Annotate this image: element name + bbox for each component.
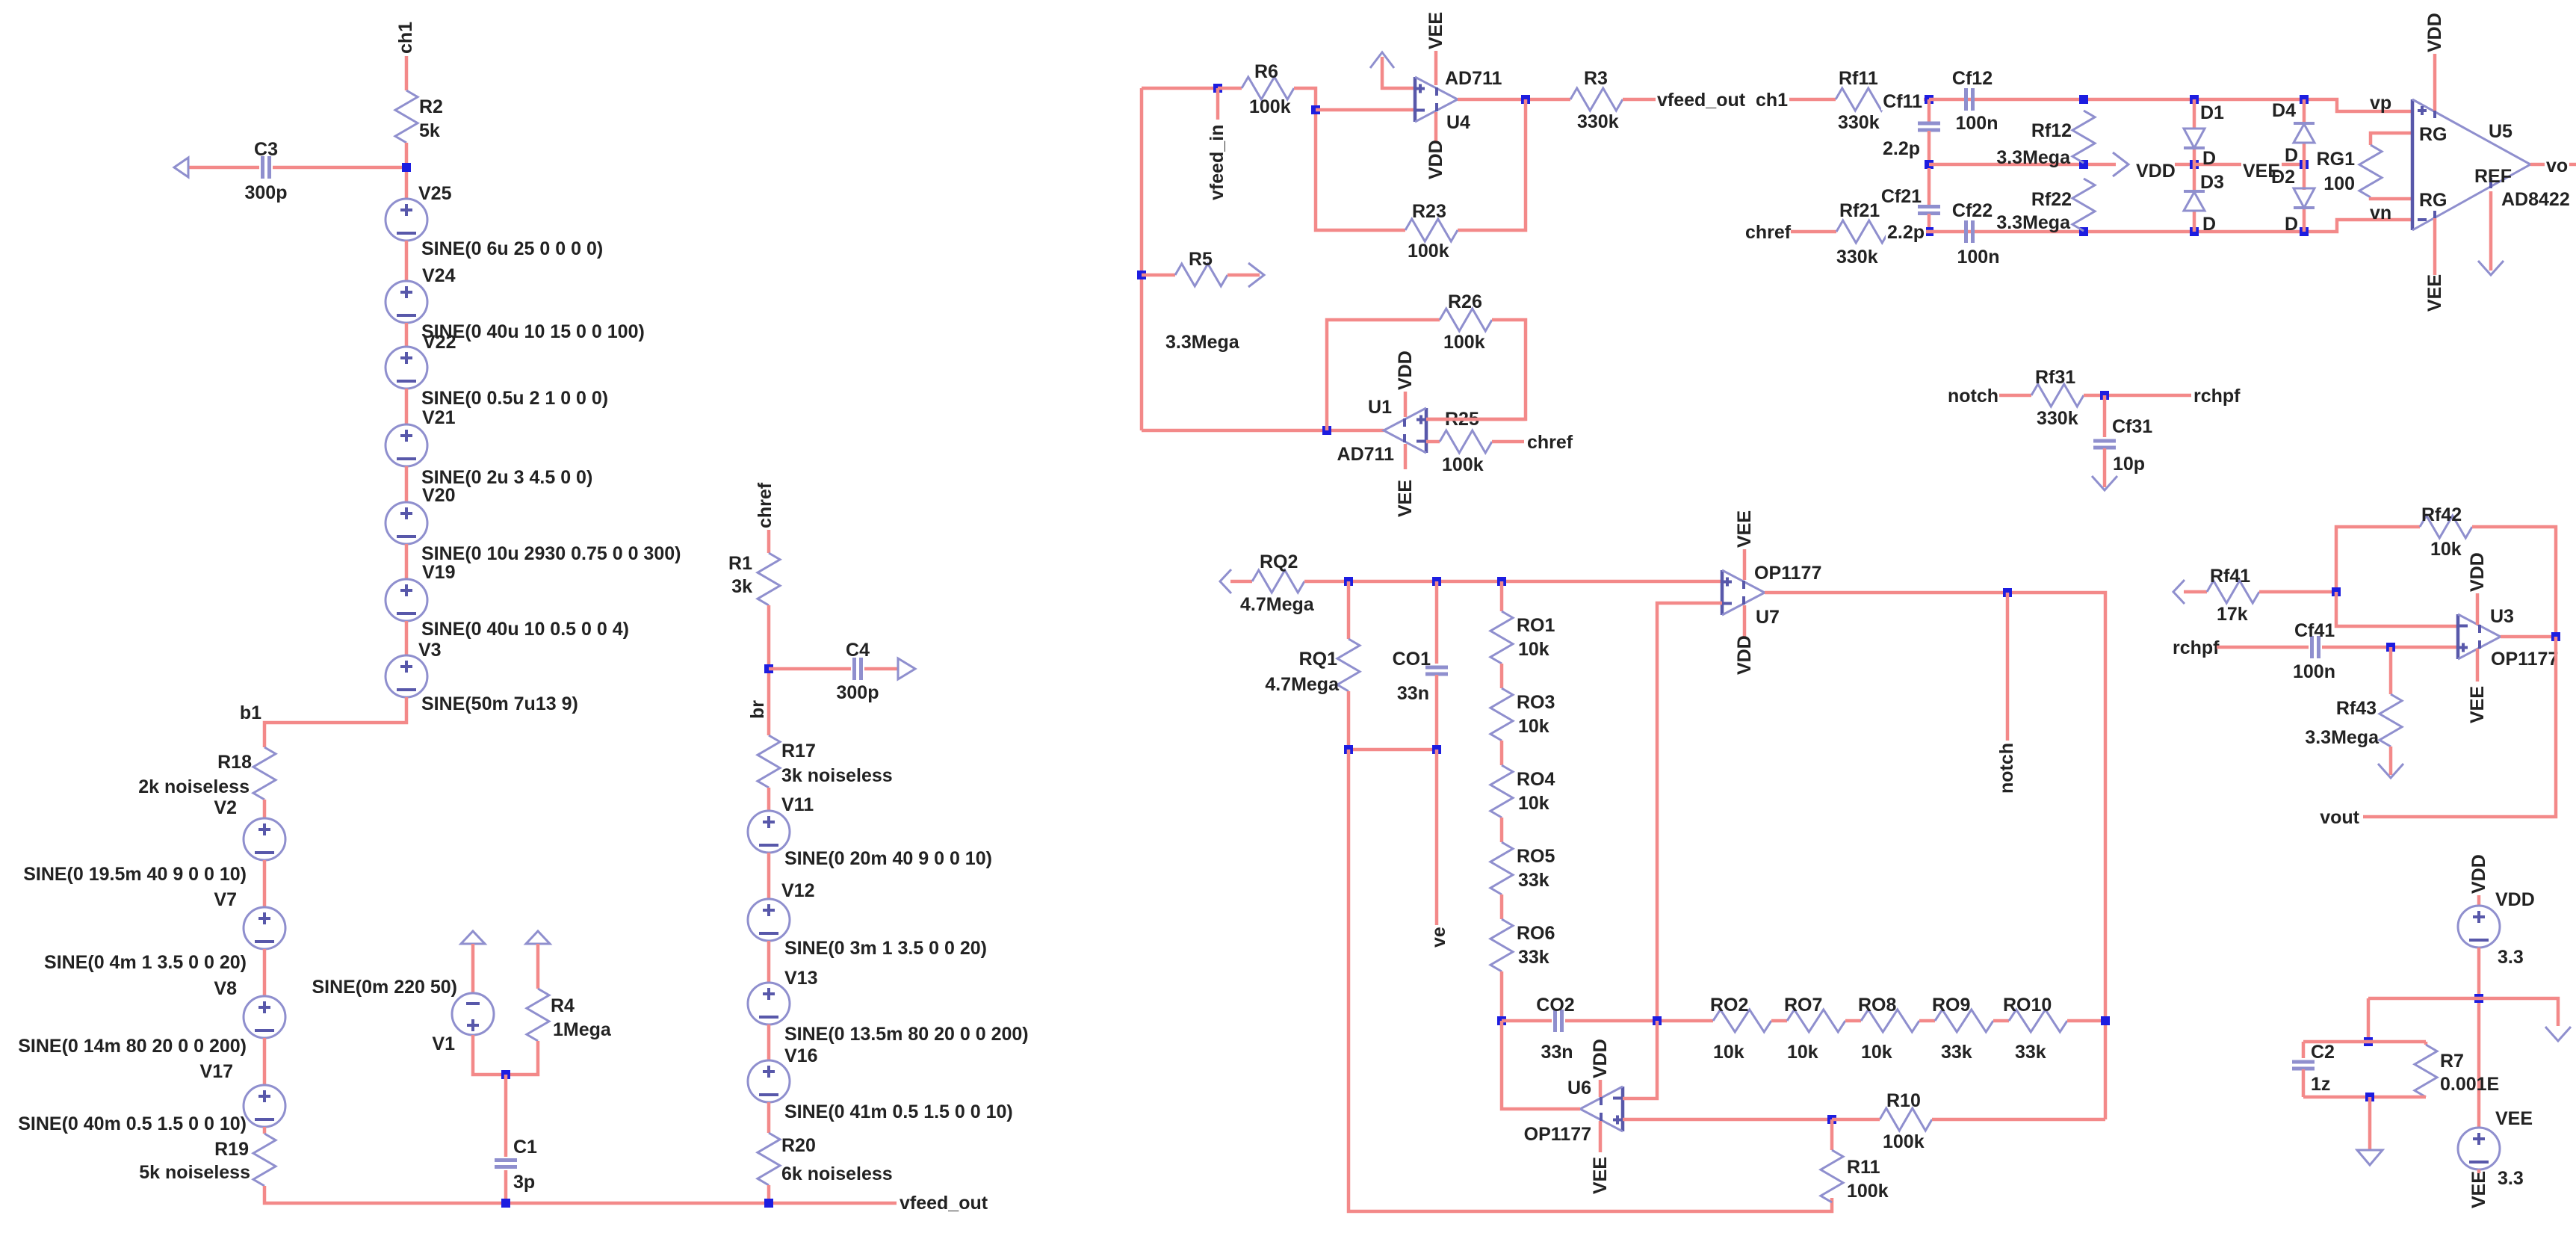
- wire: [504, 1075, 508, 1157]
- svg-text:3.3Mega: 3.3Mega: [1165, 332, 1240, 353]
- svg-text:VDD: VDD: [2467, 552, 2488, 592]
- svg-text:17k: 17k: [2217, 604, 2248, 625]
- svg-text:R5: R5: [1189, 249, 1213, 270]
- svg-text:100n: 100n: [2293, 661, 2335, 682]
- junction: [1827, 1115, 1836, 1124]
- wire: [1500, 664, 1504, 688]
- svg-text:330k: 330k: [2037, 408, 2078, 429]
- svg-text:R23: R23: [1412, 201, 1446, 222]
- wire (U7 - input): [1657, 603, 1722, 1021]
- svg-text:VDD: VDD: [2495, 889, 2535, 910]
- wire: [2303, 143, 2306, 190]
- svg-text:330k: 330k: [1836, 247, 1878, 268]
- svg-text:U4: U4: [1446, 112, 1470, 133]
- wire (U5 output vo): [2530, 163, 2576, 167]
- node vo (net label): [2545, 155, 2569, 174]
- junction: [1925, 160, 1933, 169]
- node vfeed_out (net label): [1741, 93, 1763, 106]
- junction: [2300, 227, 2309, 236]
- wire (U3 - input): [2336, 592, 2458, 626]
- wire: [2193, 211, 2196, 232]
- svg-text:U7: U7: [1756, 607, 1780, 628]
- voltage source V13: [748, 983, 790, 1025]
- wire: [504, 1170, 508, 1203]
- svg-text:R1: R1: [728, 553, 752, 574]
- svg-text:RO3: RO3: [1517, 692, 1555, 713]
- svg-text:SINE(0 41m 0.5 1.5 0 0 10): SINE(0 41m 0.5 1.5 0 0 10): [784, 1101, 1013, 1122]
- junction: [1344, 577, 1353, 586]
- junction: [1432, 577, 1441, 586]
- svg-text:V13: V13: [784, 968, 817, 989]
- svg-text:SINE(0 20m 40 9 0 0 10): SINE(0 20m 40 9 0 0 10): [784, 848, 992, 869]
- resistor RO1: [1490, 611, 1513, 664]
- wire: [1502, 1019, 1552, 1023]
- wire (U3 output): [2501, 635, 2556, 639]
- wire: [2084, 394, 2191, 398]
- node chref (net label): [1744, 221, 1793, 241]
- svg-text:10k: 10k: [1787, 1042, 1818, 1063]
- svg-text:vfeed_out: vfeed_out: [1657, 90, 1746, 111]
- port (left chevron): [1220, 569, 1231, 593]
- svg-text:R3: R3: [1584, 68, 1608, 89]
- op-amp U1 (mirrored): [1425, 408, 1428, 453]
- wire: [471, 944, 475, 993]
- junction: [1322, 426, 1331, 435]
- diode D2: [2294, 188, 2315, 208]
- wire: [263, 949, 267, 996]
- svg-text:100n: 100n: [1957, 247, 2000, 268]
- svg-text:AD8422: AD8422: [2501, 189, 2570, 210]
- svg-text:SINE(0 40u 10 0.5 0 0 4): SINE(0 40u 10 0.5 0 0 4): [421, 619, 629, 640]
- power VDD (rotated label): [1434, 112, 1438, 142]
- wire: [1623, 98, 1836, 102]
- wire (U7 output): [1765, 593, 2105, 1119]
- junction: [1213, 84, 1222, 93]
- svg-text:0.001E: 0.001E: [2440, 1074, 2499, 1095]
- svg-text:R18: R18: [217, 752, 252, 773]
- wire: [2477, 948, 2481, 1128]
- port (down chevron): [2478, 261, 2504, 275]
- wire: [1435, 675, 1439, 750]
- junction: [402, 163, 411, 172]
- svg-text:RO2: RO2: [1710, 995, 1748, 1016]
- wire (C2/R7 bottom): [2303, 1096, 2426, 1099]
- svg-text:RG: RG: [2419, 124, 2447, 145]
- svg-text:RO7: RO7: [1784, 995, 1822, 1016]
- svg-text:1Mega: 1Mega: [553, 1019, 612, 1040]
- svg-text:3k noiseless: 3k noiseless: [781, 765, 893, 786]
- svg-text:3k: 3k: [731, 576, 752, 597]
- svg-text:SINE(0 3m 1 3.5 0 0 20): SINE(0 3m 1 3.5 0 0 20): [784, 938, 987, 959]
- junction: [764, 1199, 773, 1208]
- svg-text:RO1: RO1: [1517, 615, 1555, 636]
- svg-text:VEE: VEE: [1590, 1157, 1611, 1194]
- wire (U4 + input): [1382, 57, 1414, 88]
- capacitor C2 (vertical): [2292, 1060, 2315, 1064]
- svg-text:3.3Mega: 3.3Mega: [1996, 147, 2071, 168]
- wire: [405, 544, 409, 579]
- capacitor C3: [188, 166, 259, 170]
- svg-text:3.3: 3.3: [2498, 1168, 2524, 1189]
- svg-text:SINE(0 19.5m 40 9 0 0 10): SINE(0 19.5m 40 9 0 0 10): [23, 864, 247, 885]
- svg-text:CO2: CO2: [1536, 995, 1574, 1016]
- svg-text:D4: D4: [2272, 100, 2296, 121]
- svg-text:V19: V19: [422, 562, 455, 583]
- svg-text:100: 100: [2323, 173, 2355, 194]
- wire: [405, 241, 409, 281]
- svg-text:C4: C4: [846, 640, 870, 661]
- wire: [1830, 1119, 1834, 1150]
- wire: [2217, 646, 2309, 649]
- wire: [1500, 971, 1504, 1021]
- svg-text:330k: 330k: [1838, 112, 1880, 133]
- wire: [2259, 590, 2336, 594]
- junction: [2079, 95, 2088, 104]
- svg-text:VDD: VDD: [1425, 140, 1446, 179]
- wire: [767, 788, 771, 811]
- svg-text:33k: 33k: [1518, 947, 1549, 968]
- svg-text:V7: V7: [214, 889, 237, 910]
- svg-text:RO4: RO4: [1517, 769, 1555, 790]
- wire: [2367, 998, 2371, 1042]
- svg-text:D: D: [2202, 148, 2216, 169]
- svg-text:V11: V11: [781, 794, 814, 815]
- svg-text:Rf31: Rf31: [2035, 367, 2075, 388]
- wire: [767, 1025, 771, 1060]
- in-amp U5 AD8422: [2411, 99, 2415, 230]
- wire: [1347, 581, 1351, 639]
- wire (U4 inverting input): [1316, 108, 1414, 112]
- wire: [263, 800, 267, 818]
- wire (R26 branch): [1327, 320, 1440, 430]
- resistor R2: [395, 90, 418, 143]
- svg-text:U6: U6: [1567, 1078, 1591, 1098]
- svg-text:Rf21: Rf21: [1839, 200, 1880, 221]
- voltage source V21: [386, 424, 427, 466]
- svg-text:4.7Mega: 4.7Mega: [1265, 674, 1340, 695]
- svg-text:RQ2: RQ2: [1260, 551, 1298, 572]
- wire (supply rail): [2368, 998, 2558, 1026]
- port (down chevron): [2378, 764, 2403, 778]
- svg-text:5k: 5k: [419, 120, 440, 141]
- svg-text:vout: vout: [2320, 807, 2359, 828]
- wire: [2424, 1042, 2428, 1045]
- svg-text:SINE(0 4m 1 3.5 0 0 20): SINE(0 4m 1 3.5 0 0 20): [44, 952, 247, 973]
- wire (stub): [1216, 88, 1220, 120]
- svg-text:RG: RG: [2419, 190, 2447, 211]
- junction: [1137, 271, 1146, 279]
- port (down chevron): [2545, 1027, 2571, 1041]
- voltage source V24: [386, 281, 427, 323]
- voltage source V16: [748, 1060, 790, 1102]
- svg-text:D: D: [2285, 145, 2298, 166]
- capacitor Cf41: [2310, 636, 2314, 658]
- node VDD (net label): [2134, 160, 2177, 179]
- svg-text:ch1: ch1: [395, 22, 416, 54]
- junction: [2190, 227, 2199, 236]
- wire: [1500, 894, 1504, 919]
- svg-text:R6: R6: [1254, 61, 1278, 82]
- svg-text:vfeed_in: vfeed_in: [1207, 125, 1227, 200]
- svg-text:3.3Mega: 3.3Mega: [2305, 727, 2380, 748]
- resistor Rf12: [2072, 111, 2095, 163]
- svg-text:D1: D1: [2200, 102, 2224, 123]
- svg-text:vn: vn: [2370, 203, 2391, 223]
- wire: [1218, 87, 1242, 90]
- svg-text:notch: notch: [1996, 743, 2017, 794]
- wire: [2371, 133, 2412, 145]
- port (left arrow): [174, 158, 188, 177]
- svg-text:br: br: [747, 700, 768, 719]
- svg-text:100n: 100n: [1956, 113, 1998, 134]
- wire (feedback): [1458, 99, 1526, 230]
- svg-text:Cf41: Cf41: [2294, 620, 2335, 641]
- wire: [1500, 741, 1504, 765]
- svg-text:RO10: RO10: [2003, 995, 2052, 1016]
- port VDD (right chevron): [2113, 152, 2128, 176]
- svg-text:VEE: VEE: [2467, 686, 2488, 723]
- wire: [2389, 747, 2393, 775]
- svg-text:5k noiseless: 5k noiseless: [139, 1162, 250, 1183]
- node vfeed_out (net label): [898, 1192, 990, 1211]
- svg-text:V24: V24: [422, 265, 456, 286]
- wire (U6 + input): [1623, 1021, 1657, 1098]
- svg-text:b1: b1: [240, 702, 261, 723]
- svg-text:100k: 100k: [1883, 1131, 1925, 1152]
- wire: [767, 853, 771, 899]
- resistor R19: [253, 1134, 276, 1186]
- wire: [1993, 1019, 2009, 1023]
- capacitor C4: [769, 667, 851, 671]
- capacitor CO2: [1553, 1010, 1557, 1032]
- svg-text:SINE(0 13.5m 80 20 0 0 200): SINE(0 13.5m 80 20 0 0 200): [784, 1024, 1029, 1045]
- wire: [473, 1035, 538, 1075]
- svg-text:RO9: RO9: [1932, 995, 1970, 1016]
- svg-text:VEE: VEE: [2424, 274, 2445, 312]
- svg-text:V22: V22: [423, 332, 456, 353]
- svg-text:U3: U3: [2490, 606, 2514, 627]
- op-amp U4: [1414, 77, 1417, 122]
- wire: [1294, 88, 1405, 230]
- svg-text:OP1177: OP1177: [1524, 1124, 1591, 1145]
- junction: [1432, 745, 1441, 754]
- voltage source V20: [386, 502, 427, 544]
- svg-text:SINE(0 14m 80 20 0 0 200): SINE(0 14m 80 20 0 0 200): [18, 1036, 247, 1057]
- wire: [1928, 131, 1931, 164]
- wire: [2067, 1019, 2105, 1023]
- voltage source V2: [244, 818, 285, 860]
- svg-text:Cf11: Cf11: [1883, 91, 1922, 112]
- svg-text:RO8: RO8: [1858, 995, 1897, 1016]
- capacitor Cf22: [1964, 220, 1968, 243]
- voltage source V7: [244, 907, 285, 949]
- svg-text:VEE: VEE: [1734, 510, 1755, 548]
- voltage source V19: [386, 579, 427, 621]
- wire: [405, 389, 409, 424]
- wire: [1227, 274, 1260, 277]
- wire (mid rail): [1929, 163, 2116, 167]
- svg-text:3p: 3p: [513, 1172, 535, 1193]
- svg-text:100k: 100k: [1443, 332, 1485, 353]
- svg-text:10k: 10k: [1713, 1042, 1744, 1063]
- wire (top rail): [1929, 99, 2412, 111]
- svg-text:VDD: VDD: [1590, 1039, 1611, 1078]
- wire: [1426, 418, 1526, 421]
- wire (Rf42 loop): [2336, 527, 2420, 592]
- svg-text:100k: 100k: [1442, 454, 1484, 475]
- svg-text:3.3Mega: 3.3Mega: [1996, 212, 2071, 233]
- resistor Rf22: [2072, 179, 2095, 231]
- wire: [767, 1102, 771, 1133]
- junction: [2474, 994, 2483, 1003]
- junction: [2364, 1037, 2373, 1046]
- svg-text:10k: 10k: [2430, 539, 2462, 560]
- resistor Rf42: [2420, 516, 2472, 538]
- wire (bottom rail left): [264, 1186, 897, 1203]
- resistor R1: [758, 553, 780, 605]
- svg-text:chref: chref: [1745, 222, 1792, 243]
- svg-text:33n: 33n: [1541, 1042, 1573, 1063]
- svg-text:V3: V3: [418, 640, 442, 661]
- svg-text:10p: 10p: [2113, 454, 2145, 475]
- capacitor C1: [495, 1158, 517, 1162]
- svg-text:100k: 100k: [1847, 1181, 1889, 1202]
- resistor RG1: [2359, 145, 2382, 197]
- wire: [2175, 163, 2194, 167]
- wire: [767, 1185, 771, 1203]
- svg-text:R26: R26: [1448, 291, 1482, 312]
- wire: [2103, 395, 2107, 437]
- svg-text:VEE: VEE: [2495, 1108, 2533, 1129]
- wire (ve stub): [1435, 750, 1439, 925]
- svg-text:V20: V20: [422, 485, 455, 506]
- svg-text:D: D: [2202, 214, 2216, 235]
- svg-text:V17: V17: [200, 1061, 233, 1082]
- svg-text:33k: 33k: [1941, 1042, 1972, 1063]
- svg-text:Rf42: Rf42: [2421, 504, 2462, 525]
- power VEE (rotated label): [1404, 444, 1408, 469]
- wire (bus): [1304, 580, 1722, 584]
- svg-text:SINE(0 6u 25 0 0 0 0): SINE(0 6u 25 0 0 0 0): [421, 238, 603, 259]
- svg-text:10k: 10k: [1861, 1042, 1892, 1063]
- wire: [263, 860, 267, 907]
- wire: [1426, 320, 1526, 419]
- svg-text:100k: 100k: [1408, 241, 1449, 262]
- wire: [1928, 214, 1931, 232]
- svg-text:V25: V25: [418, 183, 452, 204]
- svg-text:33k: 33k: [1518, 870, 1549, 891]
- svg-text:VDD: VDD: [2136, 161, 2176, 182]
- resistor RO10: [2009, 1010, 2067, 1032]
- svg-text:R4: R4: [551, 995, 575, 1016]
- wire: [2368, 1097, 2372, 1150]
- wire: [2194, 163, 2304, 167]
- resistor Rf11: [1836, 88, 1888, 111]
- svg-text:Rf22: Rf22: [2031, 189, 2072, 210]
- port (right chevron): [1248, 263, 1264, 287]
- svg-text:V12: V12: [781, 880, 814, 901]
- svg-text:Rf12: Rf12: [2031, 120, 2072, 141]
- svg-text:vo: vo: [2546, 155, 2568, 176]
- voltage source VDD: [2458, 906, 2500, 948]
- wire: [1771, 1019, 1787, 1023]
- resistor RO6: [1490, 919, 1513, 971]
- svg-text:2.2p: 2.2p: [1887, 222, 1925, 243]
- svg-text:VDD: VDD: [1734, 635, 1755, 675]
- resistor RO4: [1490, 765, 1513, 818]
- wire: [1832, 1118, 1880, 1122]
- wire: [2193, 148, 2196, 191]
- svg-text:4.7Mega: 4.7Mega: [1240, 594, 1315, 615]
- svg-text:V1: V1: [432, 1033, 455, 1054]
- wire: [1347, 691, 1351, 750]
- wire: [767, 941, 771, 983]
- port (left chevron): [2173, 580, 2185, 604]
- svg-text:VDD: VDD: [2424, 13, 2445, 52]
- svg-text:C1: C1: [513, 1137, 537, 1158]
- svg-text:2k noiseless: 2k noiseless: [138, 776, 250, 797]
- capacitor Cf11 (vertical): [1918, 122, 1940, 126]
- junction: [2101, 1016, 2110, 1025]
- resistor R26: [1440, 309, 1492, 331]
- wire: [2302, 1069, 2306, 1097]
- wire (U1 main): [1142, 429, 1384, 433]
- port (up arrow): [461, 931, 485, 944]
- wire: [264, 697, 406, 747]
- svg-text:RO6: RO6: [1517, 923, 1555, 944]
- svg-text:Cf12: Cf12: [1952, 68, 1993, 89]
- op-amp U7: [1721, 570, 1724, 615]
- junction: [1521, 95, 1530, 104]
- wire: [405, 621, 409, 655]
- junction: [1344, 745, 1353, 754]
- wire: [2303, 208, 2306, 232]
- svg-text:2.2p: 2.2p: [1883, 138, 1920, 159]
- wire: [405, 143, 409, 199]
- wire: [1492, 440, 1524, 444]
- svg-text:R20: R20: [781, 1135, 816, 1156]
- svg-text:SINE(0 0.5u 2 1 0 0 0): SINE(0 0.5u 2 1 0 0 0): [421, 388, 608, 409]
- wire (bottom rail): [1889, 220, 2412, 232]
- junction: [2003, 588, 2012, 597]
- junction: [2190, 160, 2199, 169]
- svg-text:C2: C2: [2311, 1042, 2335, 1063]
- svg-text:10k: 10k: [1518, 793, 1549, 814]
- svg-text:VEE: VEE: [1425, 12, 1446, 49]
- svg-text:AD711: AD711: [1337, 444, 1395, 465]
- svg-text:V16: V16: [784, 1045, 817, 1066]
- wire: [263, 1038, 267, 1085]
- op-amp U3: [2456, 614, 2460, 659]
- resistor R20: [758, 1133, 780, 1185]
- svg-text:U1: U1: [1368, 397, 1392, 418]
- svg-text:Cf31: Cf31: [2112, 416, 2152, 437]
- wire: [2322, 646, 2458, 649]
- svg-text:1z: 1z: [2311, 1074, 2330, 1095]
- power VEE (rotated label): [2433, 218, 2437, 275]
- svg-text:300p: 300p: [837, 682, 879, 703]
- svg-text:C3: C3: [254, 139, 278, 160]
- junction: [2332, 587, 2341, 596]
- svg-text:SINE(0 40m 0.5 1.5 0 0 10): SINE(0 40m 0.5 1.5 0 0 10): [18, 1113, 247, 1134]
- resistor Rf31: [2031, 384, 2084, 407]
- resistor Rf41: [2207, 581, 2259, 603]
- wire: [405, 323, 409, 347]
- svg-text:R7: R7: [2440, 1051, 2464, 1072]
- resistor R3: [1570, 88, 1623, 111]
- svg-text:Rf43: Rf43: [2336, 698, 2377, 719]
- junction: [1311, 105, 1320, 114]
